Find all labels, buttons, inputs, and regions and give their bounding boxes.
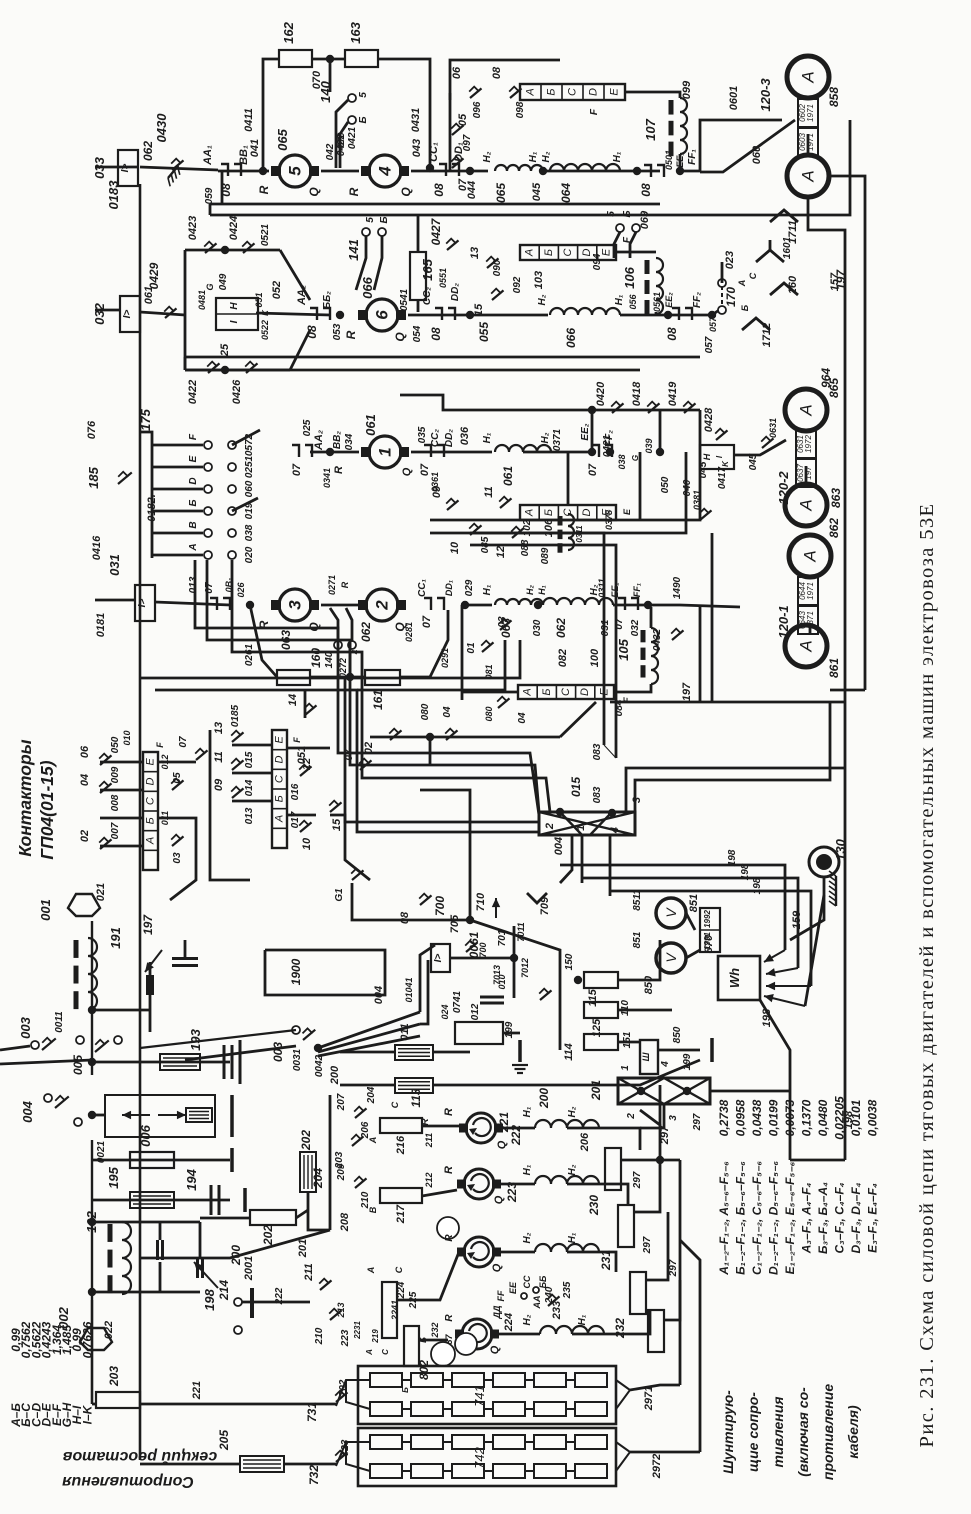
svg-text:0631: 0631	[768, 418, 778, 438]
terminal	[348, 641, 356, 649]
resistor 233	[648, 1310, 664, 1352]
return bus pair1 a	[210, 203, 660, 206]
bundle down 3	[609, 835, 612, 896]
wire 198 c	[610, 891, 811, 986]
svg-text:08: 08	[639, 183, 653, 197]
contactor 07 gp1	[195, 749, 207, 760]
contactor 03 gp1	[171, 835, 183, 846]
svg-text:103: 103	[533, 271, 545, 289]
bar 190	[230, 1095, 234, 1137]
svg-text:R: R	[444, 1234, 455, 1242]
svg-text:04: 04	[517, 712, 528, 724]
terminal 005b	[114, 1036, 122, 1044]
svg-text:207: 207	[336, 1093, 347, 1111]
chain3 tap drop	[639, 452, 642, 520]
inductor 191 core	[74, 940, 79, 1009]
svg-text:120-2: 120-2	[776, 471, 791, 505]
svg-text:0501: 0501	[664, 150, 674, 170]
junction 192a	[88, 1218, 96, 1226]
field coil 066	[550, 308, 620, 315]
tapbox4 left wire	[462, 691, 518, 694]
svg-text:DD₁: DD₁	[444, 580, 454, 596]
svg-text:011: 011	[399, 1023, 411, 1041]
svg-text:2001: 2001	[243, 1256, 255, 1281]
shunt 0602	[798, 99, 818, 127]
svg-text:F: F	[188, 433, 199, 440]
contactor 07 chain4c	[618, 598, 638, 610]
svg-text:870: 870	[703, 934, 715, 953]
wire sw201 down	[640, 1104, 664, 1128]
svg-text:Q: Q	[493, 1195, 505, 1204]
svg-text:06: 06	[451, 66, 463, 79]
return wire a	[470, 533, 604, 745]
svg-text:023: 023	[724, 251, 736, 269]
svg-text:0551: 0551	[438, 268, 448, 288]
svg-text:0291b: 0291b	[419, 654, 420, 655]
Wh arrow 4	[764, 994, 805, 1006]
contactor 04c	[445, 729, 457, 740]
contactor 08 chain1b	[439, 164, 459, 176]
svg-text:B: B	[368, 1206, 378, 1213]
svg-text:03: 03	[497, 616, 508, 628]
wire to gp2	[420, 790, 470, 880]
svg-text:069: 069	[639, 210, 651, 229]
disconnector 0430	[171, 159, 183, 170]
aux machine 221	[459, 1113, 503, 1143]
svg-text:0481: 0481	[197, 290, 207, 310]
svg-text:032: 032	[630, 619, 641, 636]
svg-text:I>: I>	[137, 599, 148, 608]
svg-text:297: 297	[692, 1113, 703, 1131]
selector 175 rail	[140, 432, 152, 558]
svg-text:FF: FF	[496, 1290, 506, 1301]
svg-text:(включая со-: (включая со-	[795, 1387, 811, 1477]
contactor 209	[354, 1177, 366, 1188]
selector contact Fa	[204, 441, 212, 449]
svg-text:057: 057	[704, 336, 715, 353]
aux3 wire b	[567, 1252, 616, 1272]
selector contact Eb	[228, 463, 236, 471]
svg-text:I: I	[229, 320, 240, 323]
svg-text:070: 070	[311, 70, 323, 89]
contactor 07	[451, 157, 463, 168]
contactor 0422	[207, 362, 219, 373]
wire to EE2	[620, 314, 668, 317]
svg-text:0,0038: 0,0038	[866, 1099, 880, 1136]
selector rung В	[152, 532, 203, 535]
bundle wire 4	[635, 702, 830, 812]
contact 1712	[742, 318, 770, 330]
junction filt2	[88, 1058, 96, 1066]
weakening wire top	[450, 60, 560, 100]
terminal 004b	[74, 1118, 82, 1126]
svg-text:195: 195	[106, 1166, 121, 1188]
gp2 right wire a	[287, 747, 330, 750]
svg-text:208: 208	[339, 1212, 351, 1232]
switch 0031	[303, 1028, 316, 1040]
junction 190	[88, 1111, 96, 1119]
contactor 15	[491, 289, 503, 300]
svg-text:D: D	[581, 508, 593, 516]
svg-text:G: G	[205, 283, 215, 290]
svg-text:802: 802	[417, 1360, 431, 1380]
wire to 170	[712, 308, 722, 315]
lower bus a	[345, 640, 520, 678]
wire 7012	[513, 926, 516, 998]
svg-text:Q: Q	[489, 1345, 501, 1354]
box 1992-1991	[700, 908, 720, 952]
svg-text:Ш: Ш	[641, 1052, 651, 1061]
reactor bottom wire	[679, 154, 682, 172]
svg-text:R: R	[443, 1166, 455, 1174]
svg-text:05: 05	[457, 113, 469, 126]
terminal 0011	[76, 1036, 84, 1044]
wire 198 a	[560, 865, 785, 950]
svg-text:A: A	[797, 640, 816, 652]
tap box chain3	[520, 505, 616, 520]
svg-text:R: R	[344, 330, 358, 339]
svg-text:V: V	[663, 952, 679, 963]
gp1 tap E wire	[100, 789, 143, 792]
svg-text:224: 224	[515, 1257, 516, 1258]
svg-text:Контакторы: Контакторы	[15, 739, 35, 856]
svg-text:0428: 0428	[703, 407, 715, 432]
chain4 drop a	[699, 607, 702, 702]
junction	[633, 167, 641, 175]
svg-text:H₂: H₂	[599, 1111, 600, 1112]
c14 stub	[304, 690, 307, 718]
svg-text:A: A	[524, 249, 536, 257]
junction	[221, 246, 229, 254]
aux2 wire	[501, 1183, 535, 1186]
switch 140c blade b	[346, 608, 352, 641]
svg-text:705: 705	[449, 914, 461, 933]
svg-text:DD₂: DD₂	[444, 429, 455, 447]
arrow 190a	[122, 1111, 150, 1119]
svg-text:170: 170	[724, 287, 738, 307]
stub 070	[329, 59, 332, 92]
svg-text:13: 13	[213, 722, 225, 734]
svg-text:219: 219	[371, 1329, 380, 1344]
bar 194	[243, 1188, 247, 1212]
svg-text:C: C	[274, 775, 286, 783]
svg-text:07: 07	[587, 463, 599, 476]
capacitor 1971	[172, 959, 198, 966]
blade 069b	[630, 232, 636, 258]
svg-text:ДД: ДД	[492, 1305, 502, 1319]
svg-text:0420: 0420	[595, 381, 607, 406]
svg-text:Сопротивления: Сопротивления	[62, 1473, 194, 1490]
svg-text:H₁: H₁	[522, 1106, 533, 1117]
svg-text:A: A	[522, 688, 534, 696]
svg-text:0261: 0261	[244, 643, 255, 666]
selector contact Fb	[228, 441, 236, 449]
contactor 04b	[497, 697, 509, 708]
resistor bank 742	[358, 1428, 616, 1486]
svg-text:F: F	[155, 742, 165, 748]
fuse 190	[186, 1108, 212, 1122]
svg-text:C: C	[567, 88, 579, 96]
svg-text:F: F	[292, 737, 302, 743]
wire 192 top	[92, 1221, 122, 1224]
blade 069a	[614, 232, 620, 258]
svg-text:197: 197	[681, 682, 693, 701]
contactor 211	[319, 1279, 331, 1290]
return bus pair2 b	[185, 369, 640, 372]
svg-text:205: 205	[217, 1430, 231, 1451]
terminal	[718, 306, 726, 314]
svg-text:0521: 0521	[260, 223, 271, 246]
wire 012 out	[503, 1032, 520, 1035]
shunt box 151	[640, 1040, 658, 1074]
svg-text:032: 032	[92, 302, 107, 324]
tap box chain1	[520, 84, 625, 100]
loop 741 left	[346, 1380, 370, 1409]
svg-text:AA₂: AA₂	[296, 285, 308, 306]
overcurrent relay 031 box	[135, 585, 155, 621]
svg-text:C: C	[748, 272, 758, 279]
switch 140 blade a	[336, 100, 348, 168]
svg-text:08: 08	[305, 325, 319, 339]
svg-text:В: В	[188, 521, 199, 528]
aux machine 222	[457, 1169, 501, 1199]
svg-text:ББ: ББ	[538, 1275, 548, 1288]
cap wire	[184, 940, 187, 958]
svg-text:150: 150	[564, 953, 575, 970]
svg-text:3: 3	[668, 1115, 679, 1121]
svg-text:Q: Q	[496, 1140, 508, 1149]
svg-text:E: E	[188, 455, 199, 462]
svg-text:A: A	[525, 88, 537, 96]
cap 198 wire	[199, 1222, 202, 1258]
bundle down 1	[560, 835, 572, 883]
svg-text:G1: G1	[334, 888, 345, 902]
svg-text:A: A	[366, 1267, 376, 1275]
svg-text:203b: 203b	[297, 1397, 298, 1398]
wire 202 out	[296, 1210, 308, 1218]
svg-text:H₁: H₁	[567, 1232, 578, 1243]
svg-text:2971: 2971	[643, 1386, 655, 1411]
svg-text:049: 049	[218, 273, 229, 290]
wire to fuse 113	[340, 1084, 395, 1087]
contactor 09	[446, 499, 458, 510]
svg-text:A: A	[797, 404, 816, 416]
bar 214	[250, 1288, 254, 1318]
junction	[656, 448, 664, 456]
junction	[426, 164, 434, 172]
svg-text:050: 050	[660, 476, 671, 493]
contactor 203	[351, 1135, 363, 1146]
overcurrent relay 700 box	[431, 944, 450, 972]
resistor 162	[279, 50, 312, 67]
switch 141 blade b	[374, 236, 382, 290]
svg-text:1711: 1711	[787, 220, 799, 244]
contact 1601 stem	[769, 240, 772, 250]
switch 140 blade b	[340, 122, 348, 168]
aux3 wire	[501, 1251, 535, 1254]
wire F-105	[614, 684, 651, 692]
svg-text:051: 051	[254, 292, 264, 307]
wire motor6 right	[408, 314, 470, 317]
wire row 195	[92, 1199, 230, 1202]
traction motor 5	[271, 155, 319, 187]
svg-text:H₁: H₁	[614, 294, 625, 305]
svg-text:15: 15	[331, 818, 343, 831]
svg-text:0429: 0429	[147, 262, 161, 289]
reactor105 up	[650, 607, 653, 628]
wire 159 to Wh	[805, 895, 824, 1006]
svg-text:0522: 0522	[260, 320, 270, 340]
svg-text:14: 14	[287, 694, 299, 706]
overcurrent relay 032 box	[120, 296, 140, 332]
svg-text:010: 010	[497, 974, 507, 989]
svg-text:861: 861	[827, 658, 841, 678]
svg-text:041: 041	[249, 139, 261, 157]
contactor 0428	[715, 429, 727, 440]
resistor 161	[365, 670, 400, 685]
box 012	[455, 1022, 503, 1044]
svg-text:0031: 0031	[292, 1048, 303, 1071]
wire motor4-CC1	[411, 170, 470, 173]
svg-text:I>: I>	[433, 954, 444, 963]
svg-text:H₂: H₂	[541, 151, 552, 162]
svg-text:157: 157	[829, 272, 841, 291]
contactor 0419	[683, 402, 695, 413]
svg-text:233: 233	[665, 1295, 666, 1296]
resistor 231	[618, 1205, 634, 1247]
wire 216 to m1	[422, 1125, 459, 1128]
arrow 710	[492, 898, 500, 918]
svg-text:0424: 0424	[228, 216, 240, 240]
shunt 0643	[798, 606, 818, 634]
svg-text:05: 05	[172, 772, 183, 784]
svg-text:0601: 0601	[728, 86, 740, 110]
svg-text:0561: 0561	[652, 292, 662, 312]
svg-text:163: 163	[348, 21, 363, 43]
bus pair2 join	[184, 357, 187, 370]
Wh arrow 2	[766, 968, 798, 976]
fan wire 2	[318, 1024, 420, 1052]
contactor 08 low	[419, 894, 431, 905]
fan wire 1	[318, 1012, 420, 1048]
svg-text:C: C	[390, 1101, 400, 1108]
contactor 702	[335, 1391, 347, 1402]
ammeter 865	[787, 155, 829, 197]
svg-text:0,0073: 0,0073	[783, 1099, 797, 1136]
wire FF2	[668, 314, 712, 317]
svg-text:H₁: H₁	[482, 584, 493, 595]
svg-text:213: 213	[336, 1302, 346, 1318]
svg-text:0422: 0422	[187, 380, 199, 404]
svg-text:E₃–F₃, E₄–F₄: E₃–F₃, E₄–F₄	[866, 1183, 880, 1253]
svg-text:010: 010	[122, 730, 132, 745]
svg-text:114: 114	[563, 1043, 575, 1061]
svg-text:026: 026	[236, 582, 246, 598]
junction	[336, 311, 344, 319]
svg-text:AA₁: AA₁	[202, 145, 214, 166]
svg-text:099: 099	[681, 80, 693, 99]
svg-text:1490: 1490	[672, 576, 683, 599]
bus 197 join	[844, 690, 847, 702]
contactor 14	[304, 704, 316, 715]
junction	[326, 448, 334, 456]
traction motor 3	[271, 589, 319, 621]
svg-text:039: 039	[644, 438, 654, 453]
svg-text:H₂: H₂	[522, 1232, 533, 1243]
svg-text:2: 2	[544, 823, 556, 830]
svg-text:198: 198	[202, 1288, 217, 1310]
svg-text:120-1: 120-1	[776, 605, 791, 638]
junction sw015 a	[556, 808, 564, 816]
contactor 08 chain4	[210, 598, 230, 610]
svg-text:12: 12	[495, 546, 507, 558]
contactor 10	[469, 524, 481, 535]
bus 865	[829, 176, 865, 690]
wire to fuse 205	[140, 1463, 240, 1466]
contactor 0429	[164, 307, 176, 318]
svg-text:045: 045	[748, 453, 759, 470]
relay H-IK box chain3	[700, 445, 734, 469]
svg-text:секций реостатов: секций реостатов	[62, 1448, 217, 1465]
svg-text:003: 003	[18, 1016, 33, 1038]
svg-text:851: 851	[688, 894, 700, 912]
wire 0601 up	[680, 120, 782, 171]
wire into 741	[336, 1380, 370, 1406]
svg-text:012: 012	[470, 1003, 481, 1020]
diagonal 060	[700, 120, 795, 172]
wire 198 b	[582, 878, 798, 968]
svg-text:052: 052	[271, 281, 283, 299]
wire BB1-041	[218, 170, 269, 173]
junction sw015 b	[608, 809, 616, 817]
cap 192a wire b	[159, 1262, 162, 1292]
loop 742 left	[346, 1442, 370, 1471]
bundle wire 2	[232, 560, 550, 812]
terminal 004	[44, 1094, 52, 1102]
svg-text:863: 863	[829, 488, 843, 508]
reactor 107 core	[669, 100, 674, 156]
svg-text:C: C	[560, 688, 572, 696]
junction	[534, 601, 542, 609]
svg-text:042: 042	[325, 143, 336, 160]
wire to relay 031	[95, 599, 135, 602]
svg-text:Б: Б	[358, 116, 369, 123]
cluster top wire	[400, 395, 700, 410]
wire fuse 011 out	[433, 1051, 470, 1054]
junction	[346, 673, 354, 681]
junction	[588, 448, 596, 456]
capacitor 194	[211, 1185, 219, 1215]
shunt link d	[805, 466, 808, 487]
svg-text:0251: 0251	[244, 455, 255, 478]
svg-text:191: 191	[108, 927, 123, 949]
svg-text:07: 07	[457, 178, 469, 191]
gp2 tap wire a	[232, 744, 272, 747]
svg-text:A: A	[797, 499, 816, 511]
junction cluster top	[588, 406, 596, 414]
gp2 tap wire c	[232, 800, 272, 803]
svg-text:Н: Н	[229, 302, 240, 310]
wire 700	[450, 957, 514, 960]
shunt link f	[809, 625, 812, 634]
svg-text:013: 013	[188, 576, 199, 593]
res231 out	[634, 1160, 660, 1212]
svg-text:0185: 0185	[230, 704, 241, 727]
svg-text:0423: 0423	[187, 216, 199, 240]
svg-text:045: 045	[531, 182, 543, 201]
junction	[708, 311, 716, 319]
svg-text:11: 11	[213, 751, 225, 762]
